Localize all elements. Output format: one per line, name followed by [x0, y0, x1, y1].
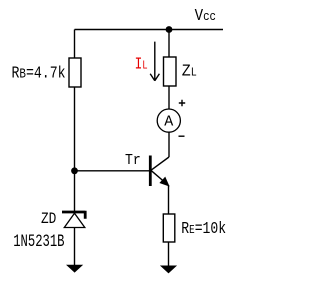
zener diode ZD anode triangle [64, 213, 85, 227]
ammeter U1 circle [157, 109, 180, 132]
wire top rail Vcc [75, 29, 224, 31]
ground left arrow [67, 265, 82, 272]
zener diode ZD cathode bar [62, 211, 85, 219]
plus sign [179, 100, 185, 106]
load ZL [164, 57, 177, 86]
svg-text:RB=4.7k: RB=4.7k [12, 63, 66, 83]
ground right arrow [161, 266, 176, 273]
transistor Tr emitter arrow [160, 178, 168, 186]
svg-text:Vcc: Vcc [195, 6, 216, 26]
label IL current [135, 54, 148, 74]
transistor Tr base bar [149, 156, 152, 187]
wire RE to ground [168, 242, 170, 268]
label RE=10k [181, 218, 226, 238]
svg-text:RE=10k: RE=10k [181, 218, 226, 238]
resistor RE [163, 214, 175, 242]
Vcc label [195, 6, 216, 26]
label Tr [125, 152, 141, 169]
label RB=4.7k [12, 63, 66, 83]
node Vcc junction dot [166, 26, 173, 33]
label ZL [182, 62, 197, 81]
wire ammeter to collector [168, 132, 170, 157]
IL arrow [150, 42, 159, 81]
wire ZL to ammeter [168, 86, 170, 109]
transistor Tr collector line [151, 157, 169, 170]
svg-text:ZD: ZD [41, 211, 56, 229]
transistor Tr emitter line [151, 170, 168, 184]
svg-text:Tr: Tr [125, 152, 141, 169]
resistor RB [69, 58, 81, 87]
wire RB to base node [74, 87, 76, 212]
wire emitter to RE [168, 185, 170, 214]
wire base node to transistor base [75, 170, 150, 172]
wire zener to ground [74, 228, 76, 268]
label 1N5231B [13, 231, 64, 252]
svg-text:A: A [164, 113, 173, 130]
minus sign [179, 135, 185, 137]
label ZD [41, 211, 56, 229]
svg-text:1N5231B: 1N5231B [13, 231, 64, 252]
wire Vcc node to ZL [168, 30, 170, 58]
node base junction dot [71, 167, 78, 174]
wire left branch upper [74, 30, 76, 59]
